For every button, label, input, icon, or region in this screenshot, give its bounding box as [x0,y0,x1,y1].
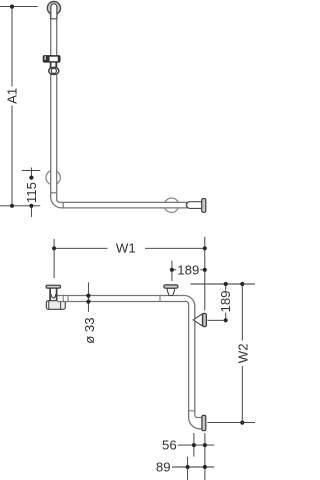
dimension diameter 33 line [86,282,90,311]
joint cup before wall flange (top view) [188,202,190,209]
conical shower head holder ring [49,67,59,74]
svg-text:115: 115 [24,182,39,203]
extension line from rosette plate to 189 [208,319,226,321]
56 left extension line [193,433,195,457]
dimension 189 horizontal line [170,268,207,272]
svg-text:89: 89 [156,459,171,474]
dimension 189 vertical label [218,290,233,312]
wall mount cone on horizontal rail (bottom view) [167,288,174,295]
dimension 189 horizontal label [177,262,199,277]
dimension W2 line [240,284,244,425]
dimension 56 line [178,443,215,447]
svg-text:W1: W1 [116,240,136,255]
wall mount cone on vertical rail (bottom view) [193,314,202,326]
dimension 115 line [29,168,33,217]
joint line above bottom elbow [189,410,195,412]
svg-text:189: 189 [218,290,233,312]
top reference line (bottom view) [191,282,256,286]
bottom elbow wall flange plate [202,415,206,430]
dimension 56 label [162,438,177,453]
dimension 89 line [172,465,214,469]
dimension 89 label [156,459,171,474]
wall mount cap on horizontal rail (bottom view) [164,285,178,288]
water valve block (bottom view left) [46,301,65,310]
dimension A1 label [4,88,19,104]
svg-text:189: 189 [177,262,199,277]
cone adapter to wall flange (top view) [187,202,202,209]
svg-text:A1: A1 [4,88,19,104]
dimension W1 line [52,246,207,250]
joint line above lower rosette [51,192,57,194]
hose connector stem (bottom view left) [50,288,57,301]
dimension 115 top tick [22,169,41,171]
dimension 189 vertical line [224,284,228,322]
189 extension line to mount cap [171,261,173,282]
svg-text:56: 56 [162,438,177,453]
shared bottom extension line (A1 / 115) [0,205,40,207]
dimension W1 label [116,240,136,255]
W1 right extension line [204,237,206,311]
dimension A1 line [10,5,14,208]
slider stem [51,62,57,68]
svg-text:ø 33: ø 33 [82,317,97,343]
top ring end of rail (top view) [47,2,60,20]
wall rosette (top view, on horizontal rail) [164,198,178,212]
joint line on horizontal rail after bend [62,202,64,208]
wall rosette (top view, on vertical rail) [46,170,60,184]
89 left extension line [187,457,189,480]
wall flange end cap (top view) [202,199,206,213]
dimension W2 label [235,343,250,363]
wall mount plate on vertical rail (bottom view) [203,313,207,326]
dimension A1 top extension line [0,6,38,8]
joint lines on horizontal rail (bottom view) [63,296,160,302]
right extension line at flange face [204,433,206,480]
shower head holder slider block [43,56,60,63]
bottom reference line (bottom view) [208,422,256,424]
dimension diameter 33 label [82,317,97,343]
svg-text:W2: W2 [235,343,250,363]
hose connector cap (bottom view left) [46,285,60,288]
dimension 115 label [24,182,39,203]
joint line before end adapter (top view) [185,202,187,208]
joint line below ring [51,18,57,20]
L-shaped rail (bottom view) [58,296,203,429]
L-shaped rail (top view) [51,15,188,208]
W1 left extension line [53,239,55,278]
